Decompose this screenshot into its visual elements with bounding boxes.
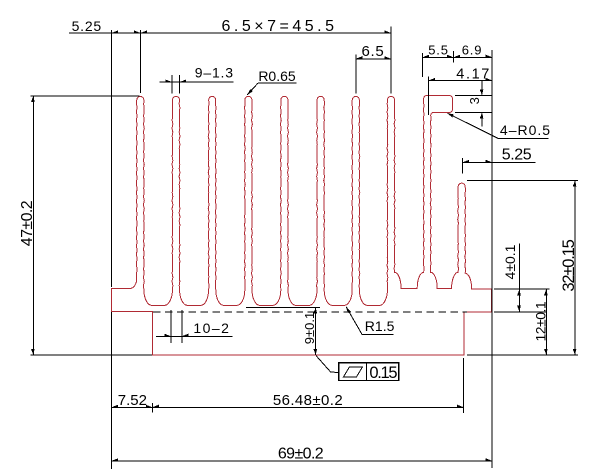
- extension line tab left: [422, 53, 424, 77]
- extension line fin8 center: [390, 27, 392, 94]
- svg-text:4–R0.5: 4–R0.5: [500, 122, 551, 138]
- leader to tolerance frame: [316, 356, 338, 373]
- svg-text:R1.5: R1.5: [365, 318, 395, 334]
- extension line tab bottom right: [455, 111, 493, 113]
- extension line left edge lower: [110, 312, 112, 469]
- leader 4-R0.5: [448, 113, 499, 138]
- dimension 5.25 right line: [462, 161, 536, 163]
- svg-text:10–2: 10–2: [193, 320, 230, 336]
- extension line groove floor: [246, 306, 320, 308]
- svg-text:6.9: 6.9: [462, 42, 482, 57]
- dimension 6.5 line: [356, 58, 391, 60]
- dashed groove root line: [153, 311, 467, 313]
- extension line left edge upper: [110, 30, 112, 287]
- dimension 9-1.3 line: [159, 81, 233, 83]
- svg-text:5.25: 5.25: [502, 147, 532, 164]
- svg-text:R0.65: R0.65: [258, 68, 296, 84]
- svg-text:47±0.2: 47±0.2: [19, 200, 36, 246]
- extension line bottom right: [467, 354, 578, 356]
- extension line base top right: [494, 288, 550, 290]
- svg-text:3: 3: [467, 97, 482, 104]
- dimension 3 upper arrow: [481, 81, 483, 89]
- extension line fins top left: [31, 95, 140, 97]
- extension ticks 10-2: [170, 310, 172, 343]
- svg-text:5.25: 5.25: [72, 18, 102, 34]
- svg-text:12±0.1: 12±0.1: [533, 301, 549, 341]
- svg-text:6.5×7=45.5: 6.5×7=45.5: [222, 18, 338, 35]
- svg-text:6.5: 6.5: [362, 43, 385, 60]
- svg-text:9±0.1: 9±0.1: [302, 312, 317, 344]
- extension line fin9 right: [427, 76, 429, 115]
- svg-text:32±0.15: 32±0.15: [560, 239, 578, 291]
- extension line fin7 center: [355, 55, 357, 94]
- svg-text:7.52: 7.52: [118, 392, 147, 409]
- extension line short fin tip right: [467, 179, 578, 181]
- svg-text:5.5: 5.5: [428, 42, 448, 57]
- leader R1.5: [346, 307, 362, 335]
- dimension 9 line: [315, 307, 317, 355]
- extension line bottom right corner: [463, 358, 465, 413]
- dimension 4.17 line: [428, 80, 492, 82]
- parallelism tolerance frame: [339, 363, 399, 381]
- extension line tab top right: [455, 95, 493, 97]
- dimension 7.52 / 56.48 line: [111, 406, 463, 408]
- dimension 47 line: [32, 96, 34, 355]
- svg-text:4.17: 4.17: [456, 67, 491, 83]
- dimension 32 line: [574, 180, 576, 355]
- svg-text:69±0.2: 69±0.2: [278, 446, 324, 463]
- extension line fin1 center: [139, 30, 141, 93]
- svg-text:4±0.1: 4±0.1: [502, 244, 518, 279]
- parallelism symbol: [343, 367, 362, 377]
- dimension 69 line: [111, 460, 492, 462]
- dimension 12 line: [545, 289, 547, 355]
- extension tick 7.52/56.48: [151, 403, 153, 413]
- svg-text:56.48±0.2: 56.48±0.2: [273, 392, 343, 409]
- extension line short fin center: [461, 158, 463, 173]
- heatsink extrusion profile outline: [111, 96, 491, 355]
- dimension line 5.25 / 6.5x7=45.5 top: [69, 32, 391, 34]
- dimension 4+-0.1 line: [518, 244, 520, 313]
- svg-text:9–1.3: 9–1.3: [195, 65, 234, 81]
- extension line right edge long: [491, 50, 493, 468]
- leader R0.65: [258, 82, 297, 84]
- extension tick 5.5/6.9: [452, 51, 454, 63]
- extension lines fin2 sides: [171, 75, 173, 94]
- extension line bottom left: [31, 354, 153, 356]
- dimension 3 lower arrow: [481, 119, 483, 127]
- extension line step right solid: [494, 311, 547, 313]
- dimension 5.5 / 6.9 line: [423, 56, 493, 58]
- svg-text:0.15: 0.15: [369, 364, 397, 382]
- dimension 10-2 line: [156, 335, 233, 337]
